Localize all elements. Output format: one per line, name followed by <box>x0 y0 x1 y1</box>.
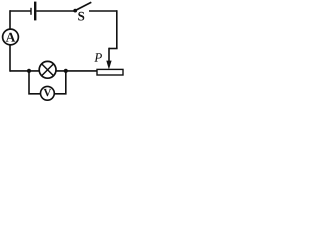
voltmeter V <box>41 86 55 100</box>
node right junction <box>64 69 68 73</box>
wire bottom main <box>10 70 97 72</box>
ammeter A <box>3 29 19 45</box>
rheostat slider arrow P <box>94 48 111 70</box>
wire jog to slider <box>109 48 118 50</box>
wire battery to switch <box>36 10 74 12</box>
battery <box>31 2 35 21</box>
lamp <box>39 61 56 78</box>
wire right vertical <box>116 10 118 48</box>
node left junction <box>27 69 31 73</box>
rheostat resistor box <box>97 69 123 75</box>
wire top-left horizontal <box>10 10 31 12</box>
wire voltmeter branch left <box>29 71 41 94</box>
wire voltmeter branch right <box>54 71 66 94</box>
wire left vertical upper <box>9 10 11 29</box>
switch S <box>73 2 117 20</box>
wire left vertical lower <box>9 45 11 72</box>
